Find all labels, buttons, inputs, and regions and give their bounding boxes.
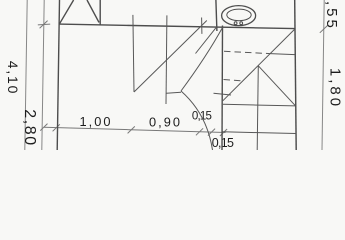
sink faucet hole right [240,22,243,25]
svg-text:0,90: 0,90 [149,114,182,129]
tread right of cut diagonal [270,54,295,55]
short tick crossing top wall at x=202 [201,18,203,34]
tick on 2,80 dimension line [38,21,50,29]
gable diagonal right [87,0,99,22]
tread stub left of stair wall [214,93,232,95]
winder tread short diagonal [196,27,217,54]
svg-text:4,10: 4,10 [5,61,21,95]
main top wall (horizontal, full width) [59,24,295,29]
sink inner bowl [227,9,251,21]
dashed headroom line 2 [224,80,244,82]
right wall (vertical) [295,0,297,150]
tick at stair wall [220,129,227,136]
svg-text:2,80: 2,80 [21,109,38,147]
tick on right dimension line [320,25,328,33]
stair tread (middle) [223,104,296,106]
tick at wall x=56 [53,124,60,131]
dashed headroom line 1 [224,51,270,53]
dimension line 2,80 (left inner) [42,0,44,150]
stair cut diagonal (top-right to stair wall) [223,29,295,101]
svg-text:1,80: 1,80 [327,68,344,109]
winder tread diagonal A (long) [134,21,207,93]
stair left wall [221,26,224,151]
walk line upper leg [181,27,223,91]
walk line start tick [167,92,182,93]
interior wall line 2 [165,15,168,104]
tick 1,00/0,90 boundary [128,126,135,133]
bathroom/stair wall stub at top [216,0,217,31]
walk line lower leg (curved) [181,91,213,150]
right dimension line [322,0,324,150]
gable vertical [99,0,101,25]
svg-text:0,15: 0,15 [212,136,234,150]
main left wall (vertical) [57,0,59,150]
sink faucet hole left [234,22,237,25]
tick 0,90/0,15 boundary [196,128,203,135]
sink outer bowl [222,6,256,26]
tick at x=43.5 (crossing 2,80 line) [40,124,47,131]
gable diagonal left [59,0,73,24]
svg-text:0,55: 0,55 [323,0,340,31]
interior wall line 1 [133,15,134,92]
svg-text:1,00: 1,00 [80,114,113,129]
stair center vertical [257,66,258,150]
bottom dimension line [44,127,226,132]
stair diagonal to right wall [258,66,295,106]
dimension line 4,10 (left outer) [25,0,27,150]
tick between 0,15 segments [208,129,215,136]
stair tread (bottom) [223,132,297,134]
